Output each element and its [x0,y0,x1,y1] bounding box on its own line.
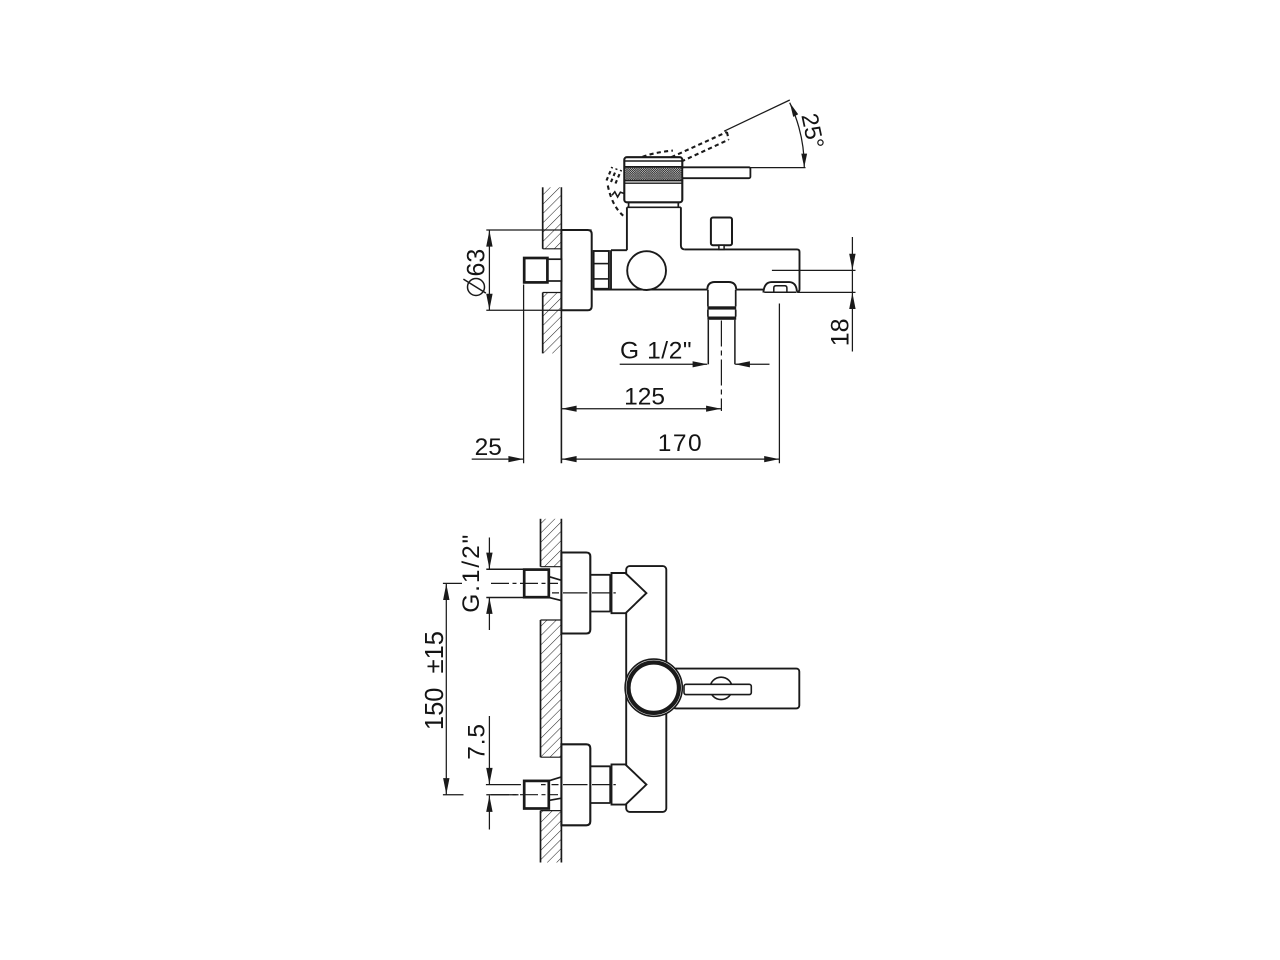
dim 170 line [561,458,779,460]
body top edge right segment with right end corner [685,249,800,292]
dashed ghost cap corner tail [608,186,623,216]
diverter stem [719,245,724,249]
upper pipe centerline [491,582,558,584]
150 top tick [443,582,462,584]
wall surface line + extension down to 170 dim [560,187,562,463]
dashed ghost lever end cap [727,132,729,140]
lower pipe centerline [491,794,558,796]
wall (side view) hatched strip upper part [543,187,562,249]
upper body axis centerline [552,592,616,594]
svg-text:150 ±15: 150 ±15 [421,631,449,730]
supply step cylinder (side view) [548,259,562,281]
7.5 upper reference line [486,784,521,786]
25deg arc arrow top [790,103,798,117]
lower body axis centerline [541,784,616,786]
dim 125 line [561,408,721,410]
svg-text:G 1/2": G 1/2" [620,338,692,365]
dim G.1/2 (front view) line/arrows [488,538,490,570]
body step bands (side view) [594,251,609,289]
lower step cylinder [590,765,610,767]
lower valve pentagon [612,764,647,804]
lever bar horizontal (side view) [682,167,750,178]
extension line nut left edge [523,285,525,464]
shower nut heavy band top [707,306,736,309]
dim ∅63 line [488,230,490,310]
dim 7.5 line/arrows [488,716,490,784]
upper inlet taper [549,577,562,581]
dim 18 line [851,237,853,352]
dim ∅63 arrow up [486,230,492,246]
dashed ghost lever upper edge [671,132,727,157]
wall gap boundaries [541,566,562,568]
aerator bump [763,282,797,293]
wall left edge upper [542,187,544,249]
mixer ball circle (side view) [627,251,666,290]
shower pipe sides [707,320,709,365]
cartridge outer circle [625,659,682,716]
shower outlet dome [707,282,736,290]
svg-text:25: 25 [475,434,502,461]
150 bottom tick [443,794,464,796]
escutcheon plate (side view) [561,230,591,310]
25deg angle: slanted reference line [724,100,790,131]
dim 18 tick lower [798,291,856,293]
dim ∅63 arrow down [486,294,492,310]
wall (side view) hatched strip lower part [543,293,562,354]
dashed ghost cap left edge strokes [607,167,613,181]
wall gap boundary upper [543,248,562,250]
break squiggle at cap left [612,192,625,197]
lever stem bar [684,684,751,694]
body slab left edge [610,250,612,289]
wall (front view) hatched strip segments [541,519,562,567]
dim ∅63 tick top [486,229,591,231]
svg-text:G.1/2": G.1/2" [458,533,485,613]
knurled cap [624,157,682,202]
upper step cylinder [590,574,610,576]
upper inlet stub lines [486,568,525,570]
upper valve pentagon [612,573,647,613]
dim 25 line with arrow [472,458,524,460]
svg-text:125: 125 [624,384,665,411]
shower pipe centerline [720,321,722,412]
label ∅63 : diameter symbol [468,279,485,296]
upper escutcheon (front view) [561,553,590,634]
25deg arc arrow bottom [801,154,807,168]
7.5 lower reference line [486,794,518,796]
25deg angle: horizontal reference line [750,167,805,169]
dim G1/2 leader/underline left with arrow [620,363,708,365]
svg-text:7.5: 7.5 [464,723,491,759]
body bottom edge left segment [594,289,708,291]
dim ∅63 tick bottom [486,309,590,311]
dim 18 arrows [849,254,855,270]
svg-text:18: 18 [827,318,855,346]
aerator inner rect [774,286,787,293]
supply nut (side view) [524,258,547,282]
body top edge left segment [611,249,627,251]
diverter knob [711,218,732,246]
wall left edge lower [542,293,544,354]
shower boss sides [707,290,709,307]
wall surface line (front view) [560,519,562,863]
25deg dimension arc [790,103,805,168]
shower nut heavy band bottom [707,317,736,320]
body slab (front view) [626,566,666,812]
lever paddle (front view) [673,669,799,709]
wall gap boundary lower [543,292,562,294]
cartridge ring [629,663,679,713]
aerator base line [764,291,796,293]
lever screw circle [710,677,732,699]
extension line spout center [778,304,780,464]
upper inlet nut [524,570,549,598]
lower inlet nut [524,781,549,809]
dim 18 tick upper [772,269,856,271]
dim G1/2 right tail with arrow [735,363,769,365]
cartridge cylinder (side view) [626,207,628,250]
cap neck [628,202,630,207]
lower inlet taper [549,777,562,781]
shower nut mid sides [707,310,709,317]
dim 150 line [445,583,447,794]
lower escutcheon (front view) [561,744,590,825]
svg-text:170: 170 [658,430,703,457]
dashed ghost lever lower edge [681,140,729,162]
dashed ghost handle: tilted cap top edge [643,151,673,157]
svg-text:63: 63 [463,249,491,277]
wall left edge segments [540,519,542,567]
body bottom edge mid segment [736,289,763,291]
